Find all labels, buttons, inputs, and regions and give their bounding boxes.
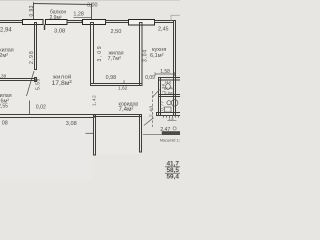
door leaf diagonal [27, 71, 35, 96]
heater circle [171, 100, 178, 107]
svg-text:12,2м²: 12,2м² [0, 53, 8, 59]
bathroom block [159, 78, 182, 81]
balcony interior tint [33, 4, 91, 20]
svg-text:0,09: 0,09 [145, 75, 155, 81]
balcony right edge [91, 5, 93, 21]
washing sink in bathroom [165, 107, 172, 112]
wall x139.5 [140, 23, 143, 86]
svg-text:2,47: 2,47 [160, 127, 170, 133]
svg-text:0,98: 0,98 [106, 75, 117, 81]
kitchen left wall x91 [91, 23, 94, 84]
svg-text:1,62: 1,62 [118, 85, 128, 91]
dim line 1,28 [74, 16, 92, 18]
svg-text:2,98: 2,98 [29, 50, 35, 64]
corridor top wall [91, 84, 143, 86]
svg-text:1,58: 1,58 [160, 69, 170, 75]
svg-text:1,28: 1,28 [73, 12, 84, 18]
svg-text:1,42: 1,42 [91, 95, 96, 106]
stairwell [94, 115, 142, 117]
room labels [0, 9, 174, 113]
window W4 [129, 20, 155, 26]
balcony left edge [33, 4, 35, 20]
toilet [166, 84, 171, 90]
entry step ticks [164, 116, 179, 118]
top wall segment 3 [106, 21, 129, 23]
svg-text:2,94: 2,94 [0, 27, 12, 33]
small neighbour balcony top right [171, 15, 180, 20]
svg-text:6,1м²: 6,1м² [150, 53, 164, 59]
svg-text:0,77: 0,77 [160, 100, 165, 110]
entry door diagonal [144, 118, 154, 126]
balcony top edge [34, 4, 92, 5]
door jamb line bottom-left [29, 101, 31, 115]
svg-text:3,08: 3,08 [54, 29, 65, 35]
svg-text:3,08: 3,08 [66, 121, 77, 127]
scan top edge [0, 0, 180, 1]
room interior tint [0, 23, 173, 116]
window W3 [83, 20, 106, 25]
dim line 2,47 with platform [143, 133, 180, 135]
svg-text:2,40: 2,40 [148, 105, 154, 117]
svg-text:1,38: 1,38 [0, 74, 7, 79]
svg-text:5,59: 5,59 [36, 78, 42, 90]
pier stub below window gap [44, 25, 46, 31]
svg-text:2,9м²: 2,9м² [50, 15, 62, 21]
paper background [0, 0, 180, 180]
svg-text:3,04: 3,04 [142, 49, 148, 62]
svg-text:7,4м²: 7,4м² [119, 106, 134, 113]
svg-text:7,7м²: 7,7м² [108, 56, 122, 62]
door tick on corridor wall [123, 80, 125, 83]
svg-text:0,02: 0,02 [36, 105, 46, 111]
dim ticks 3,00 line [33, 2, 35, 6]
dim line 1,58 [155, 73, 175, 75]
left tick of that line [86, 132, 94, 134]
top wall segment 2 [67, 21, 82, 23]
svg-text:17,8м²: 17,8м² [52, 80, 73, 87]
bottom outer wall [0, 115, 94, 118]
svg-text:2,45: 2,45 [158, 27, 169, 33]
svg-text:Масштаб 1:2: Масштаб 1:2 [160, 139, 180, 143]
svg-text:08: 08 [2, 121, 8, 127]
svg-text:3,00: 3,00 [87, 3, 98, 9]
right outer wall [174, 21, 176, 116]
svg-text:2,1м²: 2,1м² [165, 91, 174, 95]
interior wall x35 (top-left room right wall) [35, 23, 37, 70]
top outer wall segment left [0, 21, 23, 23]
dimension numbers [0, 3, 170, 133]
summary table [165, 161, 180, 181]
outside lower-left tint [0, 118, 92, 180]
window W2 (balcony door) [46, 20, 68, 25]
svg-text:59,4: 59,4 [167, 174, 180, 180]
svg-text:3,09: 3,09 [97, 45, 103, 62]
svg-text:во+4н: во+4н [165, 86, 175, 90]
window W1 [23, 20, 44, 25]
svg-text:2,50: 2,50 [111, 29, 122, 35]
dashed vertical dim 2,40 [152, 91, 154, 127]
sink [167, 101, 171, 105]
top wall segment 4 [155, 21, 174, 23]
svg-text:1,38: 1,38 [161, 83, 166, 93]
divider wall between left rooms [0, 79, 35, 81]
svg-text:0,93: 0,93 [29, 5, 35, 16]
svg-text:1,6: 1,6 [169, 117, 174, 121]
bathroom door diagonal [152, 90, 160, 98]
svg-text:-2,55: -2,55 [0, 103, 8, 109]
